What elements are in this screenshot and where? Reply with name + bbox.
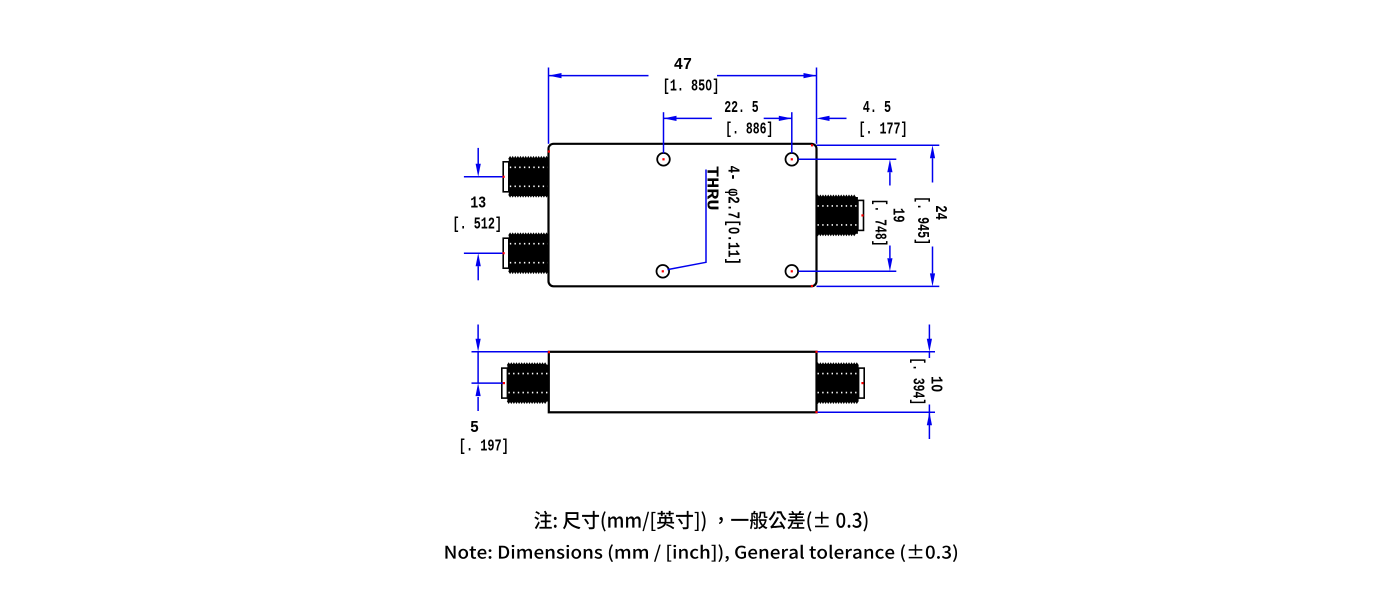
svg-text:13: 13 [470,194,486,213]
svg-text:22. 5: 22. 5 [724,98,759,117]
svg-text:[. 886]: [. 886] [725,119,773,138]
svg-text:[. 197]: [. 197] [459,437,509,456]
svg-text:19: 19 [888,208,907,223]
svg-text:10: 10 [926,376,945,392]
svg-text:[. 748]: [. 748] [870,199,889,247]
svg-text:4- φ2.7[0.11]: 4- φ2.7[0.11] [724,166,743,266]
svg-text:[. 394]: [. 394] [909,357,928,405]
svg-text:[. 945]: [. 945] [913,196,932,245]
svg-text:[. 177]: [. 177] [859,119,908,138]
svg-text:47: 47 [674,55,693,74]
svg-text:[1. 850]: [1. 850] [663,76,720,95]
svg-text:5: 5 [470,418,479,437]
svg-text:[. 512]: [. 512] [453,214,503,233]
svg-text:4. 5: 4. 5 [863,98,891,117]
svg-text:24: 24 [931,205,950,220]
svg-text:THRU: THRU [703,166,722,211]
